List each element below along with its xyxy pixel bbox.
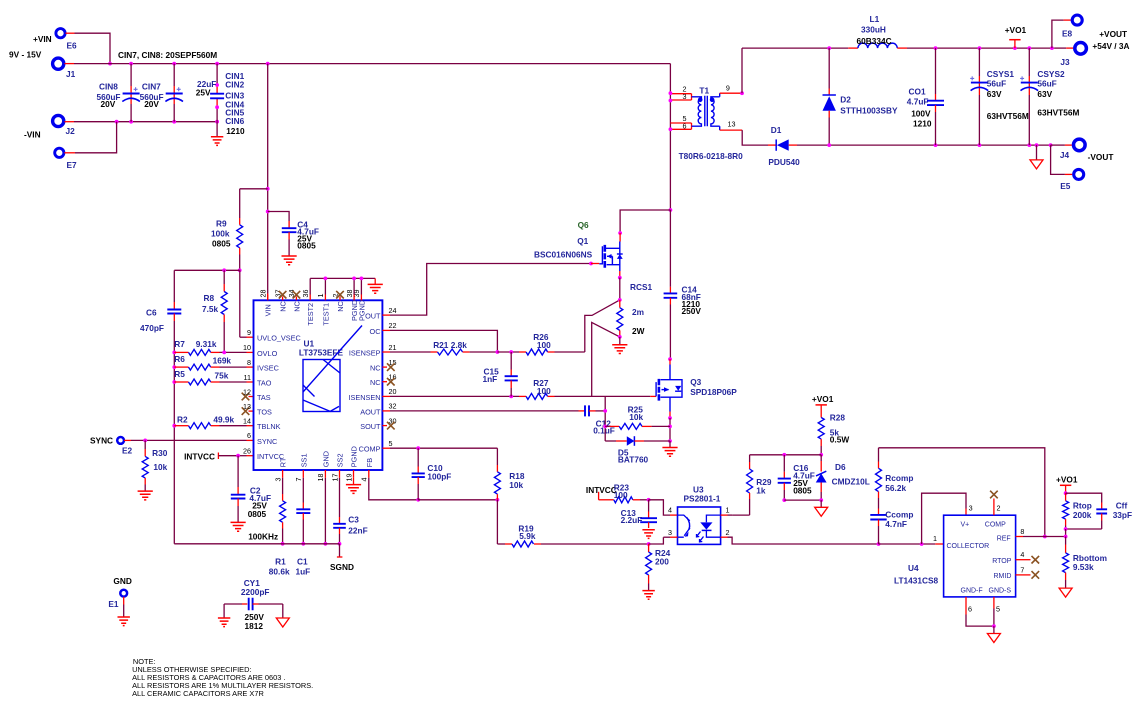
junction: [1064, 491, 1068, 495]
connector E7: [55, 148, 64, 157]
svg-text:33pF: 33pF: [1113, 510, 1132, 520]
no-connect pin 12 TAS: [249, 396, 254, 398]
capacitor C12: [579, 410, 586, 412]
svg-text:D2: D2: [840, 95, 851, 105]
wire U1 top pin stubs: [267, 295, 269, 301]
capacitor C6: [173, 270, 175, 302]
svg-text:63V: 63V: [1037, 89, 1052, 99]
wire R9 bottom row: [174, 269, 239, 271]
connector J4: [1051, 144, 1065, 146]
svg-text:250V: 250V: [682, 306, 702, 316]
wire pin 9 UVLO_VSEC: [239, 270, 241, 337]
svg-text:1: 1: [316, 294, 325, 298]
svg-text:49.9k: 49.9k: [213, 415, 234, 425]
svg-text:18: 18: [316, 474, 325, 482]
wire Q3 ground: [669, 441, 671, 448]
junction: [1027, 46, 1031, 50]
wire U3 pin 3: [670, 536, 678, 538]
svg-text:56uF: 56uF: [987, 79, 1006, 89]
power flag +VO1 R28: [816, 404, 827, 406]
svg-text:RMID: RMID: [994, 573, 1012, 580]
svg-text:BSC016N06NS: BSC016N06NS: [534, 250, 593, 260]
ground RCS1: [612, 345, 627, 354]
svg-text:9.31k: 9.31k: [196, 339, 217, 349]
junction: [1050, 46, 1054, 50]
connector E5: [1051, 145, 1065, 174]
ground C4: [282, 256, 297, 265]
svg-text:E5: E5: [1060, 181, 1071, 191]
svg-text:RT: RT: [279, 457, 288, 467]
svg-text:+VOUT: +VOUT: [1099, 29, 1127, 39]
svg-text:22nF: 22nF: [348, 526, 367, 536]
junction: [978, 46, 982, 50]
wire FB row to R18: [418, 499, 497, 501]
svg-text:E8: E8: [1062, 29, 1073, 39]
svg-text:OC: OC: [370, 327, 381, 336]
svg-text:24: 24: [389, 306, 397, 315]
svg-text:12: 12: [243, 387, 251, 396]
svg-text:6: 6: [247, 431, 251, 440]
svg-text:1210: 1210: [226, 126, 245, 136]
svg-text:0805: 0805: [297, 241, 316, 251]
svg-text:TEST1: TEST1: [321, 303, 330, 326]
resistor Rtop: [1065, 493, 1067, 501]
svg-text:SOUT: SOUT: [360, 422, 381, 431]
resistor R18: [496, 448, 498, 465]
ground U4: [987, 634, 1000, 643]
no-connect pin 37: [279, 291, 287, 299]
svg-text:INTVCC: INTVCC: [586, 485, 617, 495]
wire top rail to transformer: [669, 64, 671, 210]
svg-text:9: 9: [726, 84, 730, 93]
ground R30: [138, 491, 153, 500]
no-connect U4 COMP pin 2: [993, 499, 995, 516]
svg-text:+VO1: +VO1: [812, 394, 834, 404]
svg-text:3: 3: [273, 478, 282, 482]
capacitor Cff: [1066, 493, 1102, 502]
op-amp U1 LT3753EFE body: [254, 300, 383, 470]
capacitor CIN7: [173, 64, 175, 86]
wire U3 pin 1: [721, 514, 728, 516]
wire FB pin 4: [369, 478, 418, 500]
resistor R21: [382, 351, 390, 353]
junction: [618, 276, 622, 280]
diode D1 PDU540: [768, 144, 776, 146]
junction: [143, 439, 147, 443]
svg-text:9: 9: [247, 328, 251, 337]
svg-text:200: 200: [655, 557, 669, 567]
svg-text:GND-S: GND-S: [989, 588, 1012, 595]
resistor Rcomp: [878, 448, 880, 462]
resistor R24: [648, 544, 650, 552]
junction: [819, 498, 823, 502]
resistor R2: [172, 424, 176, 428]
transformer T1 T80R6-0218-8R0: [670, 93, 691, 95]
svg-text:25V: 25V: [196, 87, 211, 97]
diode D5 BAT760: [605, 440, 616, 442]
svg-text:100V: 100V: [911, 109, 931, 119]
wire to U3 pin 4: [649, 500, 670, 515]
svg-text:T1: T1: [699, 86, 709, 96]
ground C13: [642, 530, 654, 539]
svg-text:NC: NC: [279, 301, 288, 312]
junction: [509, 350, 513, 354]
junction: [669, 91, 673, 95]
svg-text:330uH: 330uH: [861, 25, 886, 35]
capacitor C1: [302, 478, 304, 503]
resistor R30: [144, 440, 146, 449]
resistor Rbottom: [1065, 537, 1067, 545]
wire T1 pin 13 out: [720, 129, 743, 131]
no-connect pin 16: [382, 381, 387, 383]
svg-text:56uF: 56uF: [1037, 79, 1056, 89]
svg-text:R30: R30: [152, 448, 168, 458]
ground Rbottom: [1059, 588, 1072, 597]
svg-text:TOS: TOS: [257, 408, 272, 417]
junction: [669, 99, 673, 103]
svg-text:BAT760: BAT760: [618, 455, 649, 465]
zener diode D6 CMDZ10L: [820, 455, 822, 461]
svg-text:63HVT56M: 63HVT56M: [1037, 108, 1079, 118]
svg-text:100: 100: [614, 490, 628, 500]
svg-text:IVSEC: IVSEC: [257, 364, 279, 373]
junction: [827, 143, 831, 147]
junction: [115, 120, 119, 124]
svg-text:REF: REF: [997, 536, 1011, 543]
wire Q3 source down: [669, 412, 671, 419]
junction: [281, 542, 285, 546]
svg-text:E1: E1: [108, 599, 119, 609]
svg-text:D1: D1: [771, 125, 782, 135]
svg-text:CIN8: CIN8: [99, 82, 118, 92]
junction: [1064, 535, 1068, 539]
svg-text:56.2k: 56.2k: [885, 483, 906, 493]
svg-text:SS2: SS2: [336, 453, 345, 467]
junction: [589, 262, 593, 266]
svg-text:R7: R7: [174, 339, 185, 349]
svg-text:NC: NC: [370, 378, 381, 387]
junction: [669, 127, 673, 131]
no-connect pin 2: [336, 291, 344, 299]
wire U3 pin 2: [721, 536, 728, 538]
junction: [1064, 527, 1068, 531]
connector J1: [53, 58, 64, 69]
svg-text:NC: NC: [370, 364, 381, 373]
no-connect pin 13 TOS: [249, 410, 254, 412]
svg-text:CIN7, CIN8: 20SEPF560M: CIN7, CIN8: 20SEPF560M: [118, 50, 217, 60]
capacitor C16: [783, 455, 785, 472]
junction: [647, 542, 651, 546]
svg-text:+VO1: +VO1: [1005, 25, 1027, 35]
resistor R25: [605, 425, 609, 427]
svg-text:E7: E7: [67, 160, 78, 170]
svg-text:R5: R5: [174, 369, 185, 379]
junction: [668, 357, 672, 361]
svg-text:OVLO: OVLO: [257, 349, 278, 358]
wire +VOUT top rail: [742, 47, 848, 49]
connector E6: [56, 29, 65, 38]
ground CY1 right: [282, 604, 284, 618]
svg-text:14: 14: [243, 417, 251, 426]
svg-text:13: 13: [728, 120, 736, 129]
svg-text:VIN: VIN: [264, 304, 273, 316]
svg-text:36: 36: [301, 290, 310, 298]
junction: [782, 498, 786, 502]
svg-text:Ccomp: Ccomp: [885, 510, 913, 520]
svg-text:1nF: 1nF: [483, 374, 498, 384]
svg-text:GND-F: GND-F: [961, 588, 983, 595]
junction: [360, 277, 364, 281]
resistor R5: [172, 380, 176, 384]
wire -VIN bottom rail: [64, 121, 74, 123]
wire Cff bottom: [1066, 528, 1102, 530]
svg-text:NC: NC: [292, 301, 301, 312]
svg-text:GND: GND: [113, 576, 131, 586]
svg-text:ISENSEN: ISENSEN: [348, 393, 380, 402]
junction: [782, 453, 786, 457]
svg-text:CIN2: CIN2: [225, 80, 244, 90]
svg-text:4.7nF: 4.7nF: [885, 519, 907, 529]
capacitor C3: [339, 478, 341, 517]
junction: [827, 46, 831, 50]
no-connect pin 15: [382, 366, 387, 368]
junction: [920, 542, 924, 546]
junction: [1043, 535, 1047, 539]
svg-text:Q6: Q6: [578, 220, 589, 230]
junction: [1013, 46, 1017, 50]
svg-text:Rcomp: Rcomp: [885, 473, 913, 483]
IC U4 LT1431CS8: [944, 515, 1016, 597]
junction: [215, 105, 219, 109]
svg-text:100: 100: [537, 340, 551, 350]
junction: [647, 498, 651, 502]
svg-text:NC: NC: [336, 301, 345, 312]
svg-text:AOUT: AOUT: [360, 407, 381, 416]
svg-text:CIN7: CIN7: [142, 82, 161, 92]
capacitor CO1: [935, 48, 937, 94]
svg-text:13: 13: [243, 402, 251, 411]
no-connect U4 RTOP pin 4: [1016, 559, 1031, 561]
svg-text:1812: 1812: [245, 621, 264, 631]
ground output rail: [1036, 145, 1038, 159]
svg-text:+VIN: +VIN: [33, 34, 52, 44]
svg-text:100k: 100k: [211, 229, 230, 239]
svg-text:2200pF: 2200pF: [241, 587, 270, 597]
svg-text:FB: FB: [365, 458, 374, 467]
inductor L1: [858, 43, 897, 48]
svg-text:20V: 20V: [101, 99, 116, 109]
svg-text:E2: E2: [122, 446, 133, 456]
svg-text:RTOP: RTOP: [992, 558, 1012, 565]
junction: [416, 498, 420, 502]
resistor R7: [172, 351, 176, 355]
capacitor C2: [237, 456, 239, 487]
junction: [603, 425, 607, 429]
svg-text:4.7uF: 4.7uF: [907, 96, 929, 106]
ground U1 top: [368, 284, 383, 293]
svg-text:SYNC: SYNC: [90, 436, 113, 446]
svg-text:Q1: Q1: [577, 236, 588, 246]
wire R28 node row: [750, 454, 822, 456]
wire REF row: [1016, 536, 1023, 538]
wire T1 pin 9 out: [720, 92, 742, 94]
junction: [618, 231, 622, 235]
svg-text:470pF: 470pF: [140, 323, 164, 333]
svg-text:22: 22: [389, 321, 397, 330]
junction: [1027, 143, 1031, 147]
svg-text:80.6k: 80.6k: [269, 567, 290, 577]
transistor Q3 SPD18P06P: [669, 359, 671, 364]
svg-text:E6: E6: [67, 41, 78, 51]
net label SGND: [339, 544, 341, 557]
transistor Q1 BSC016N06NS: [599, 242, 622, 268]
svg-text:J3: J3: [1060, 57, 1070, 67]
junction: [108, 62, 112, 66]
svg-text:100KHz: 100KHz: [248, 532, 278, 542]
capacitor C10: [417, 448, 419, 466]
resistor R9: [239, 189, 241, 218]
svg-text:9.53k: 9.53k: [1073, 562, 1094, 572]
wire INTVCC to pin 26: [238, 455, 246, 457]
wire GND pin 18 down: [324, 478, 326, 544]
junction: [238, 268, 242, 272]
svg-text:169k: 169k: [213, 356, 232, 366]
wire VIN branch: [267, 64, 269, 294]
junction: [338, 542, 342, 546]
svg-text:ISENSEP: ISENSEP: [349, 348, 381, 357]
svg-text:U4: U4: [908, 563, 919, 573]
svg-text:CIN6: CIN6: [225, 116, 244, 126]
resistor R6: [172, 365, 176, 369]
svg-text:6: 6: [968, 605, 972, 614]
junction: [668, 425, 672, 429]
wire to Q1 drain: [620, 210, 670, 233]
svg-text:C6: C6: [146, 308, 157, 318]
capacitor C13: [648, 500, 650, 512]
svg-text:TAO: TAO: [257, 378, 272, 387]
wire +VIN top rail: [64, 63, 74, 65]
wire C16 to D6 bottom: [784, 499, 821, 501]
svg-text:+54V / 3A: +54V / 3A: [1092, 41, 1129, 51]
ground PGND pin 19: [353, 478, 355, 485]
svg-text:STTH1003SBY: STTH1003SBY: [840, 106, 898, 116]
wire U4 grounds: [965, 597, 967, 615]
svg-text:4: 4: [668, 506, 672, 515]
connector J3: [1054, 47, 1066, 49]
svg-text:C3: C3: [348, 515, 359, 525]
junction: [496, 350, 500, 354]
junction: [215, 62, 219, 66]
svg-text:1k: 1k: [756, 486, 766, 496]
junction: [934, 46, 938, 50]
svg-text:TAS: TAS: [257, 393, 271, 402]
ground D6: [820, 500, 822, 507]
wire Q1 gate stub: [591, 263, 599, 265]
resistor R27: [519, 395, 526, 397]
wire R18 to R19: [496, 500, 498, 544]
no-connect pin 30 SOUT: [382, 425, 387, 427]
svg-text:J4: J4: [1060, 150, 1070, 160]
wire R29 to U3 pin 1: [732, 514, 750, 516]
resistor R8: [223, 270, 225, 284]
junction: [978, 143, 982, 147]
svg-text:0.5W: 0.5W: [830, 435, 850, 445]
svg-text:17: 17: [330, 474, 339, 482]
svg-text:R6: R6: [174, 354, 185, 364]
svg-text:10: 10: [243, 343, 251, 352]
capacitor C14: [669, 210, 671, 287]
svg-text:0805: 0805: [212, 239, 231, 249]
svg-text:75k: 75k: [215, 371, 229, 381]
junction: [1049, 143, 1053, 147]
svg-text:LT1431CS8: LT1431CS8: [894, 576, 939, 586]
connector E8: [1052, 20, 1064, 48]
svg-text:5: 5: [996, 605, 1000, 614]
svg-text:-VIN: -VIN: [24, 130, 41, 140]
diode D2 STTH1003SBY: [828, 48, 830, 88]
junction: [603, 409, 607, 413]
svg-text:4: 4: [360, 478, 369, 482]
wire ISENSEN pin 20 row: [382, 395, 390, 397]
junction: [266, 187, 270, 191]
svg-text:R1: R1: [275, 557, 286, 567]
svg-text:RCS1: RCS1: [630, 282, 653, 292]
svg-text:CMDZ10L: CMDZ10L: [832, 476, 870, 486]
ground C2: [231, 522, 246, 531]
svg-text:L1: L1: [870, 14, 880, 24]
wire RCS1 to ground: [619, 337, 621, 345]
svg-text:3: 3: [969, 504, 973, 513]
capacitor CIN8: [130, 64, 132, 86]
svg-text:1uF: 1uF: [296, 567, 311, 577]
wire output bottom rail: [829, 144, 1050, 146]
svg-text:C1: C1: [297, 557, 308, 567]
svg-text:60B334C: 60B334C: [857, 36, 892, 46]
svg-text:SPD18P06P: SPD18P06P: [690, 387, 737, 397]
wire kelvin sense lower: [592, 322, 620, 396]
svg-text:COMP: COMP: [359, 445, 381, 454]
svg-text:UVLO_VSEC: UVLO_VSEC: [257, 334, 301, 343]
wire E7 riser: [64, 152, 75, 154]
resistor R28: [820, 412, 822, 418]
svg-text:0805: 0805: [248, 509, 267, 519]
junction: [324, 542, 328, 546]
wire V+ branch: [922, 493, 966, 544]
junction: [934, 143, 938, 147]
junction: [129, 120, 133, 124]
wire rail after L1: [907, 47, 1054, 49]
svg-text:21: 21: [389, 343, 397, 352]
svg-text:7.5k: 7.5k: [202, 304, 219, 314]
svg-text:10k: 10k: [153, 462, 167, 472]
svg-text:SYNC: SYNC: [257, 437, 277, 446]
resistor R23: [614, 497, 633, 503]
wire SYNC row: [124, 439, 131, 441]
svg-text:200k: 200k: [1073, 510, 1092, 520]
svg-text:6: 6: [683, 121, 687, 130]
svg-text:PGND: PGND: [357, 300, 366, 321]
svg-text:1: 1: [726, 506, 730, 515]
resistor R26: [519, 351, 526, 353]
svg-text:PS2801-1: PS2801-1: [684, 494, 721, 504]
wire AOUT pin 32 row: [382, 410, 390, 412]
svg-text:CSYS1: CSYS1: [987, 69, 1015, 79]
svg-text:63V: 63V: [987, 89, 1002, 99]
ground R24: [642, 591, 654, 600]
junction: [877, 542, 881, 546]
capacitor C4: [268, 212, 289, 222]
no-connect pin 34: [293, 291, 301, 299]
